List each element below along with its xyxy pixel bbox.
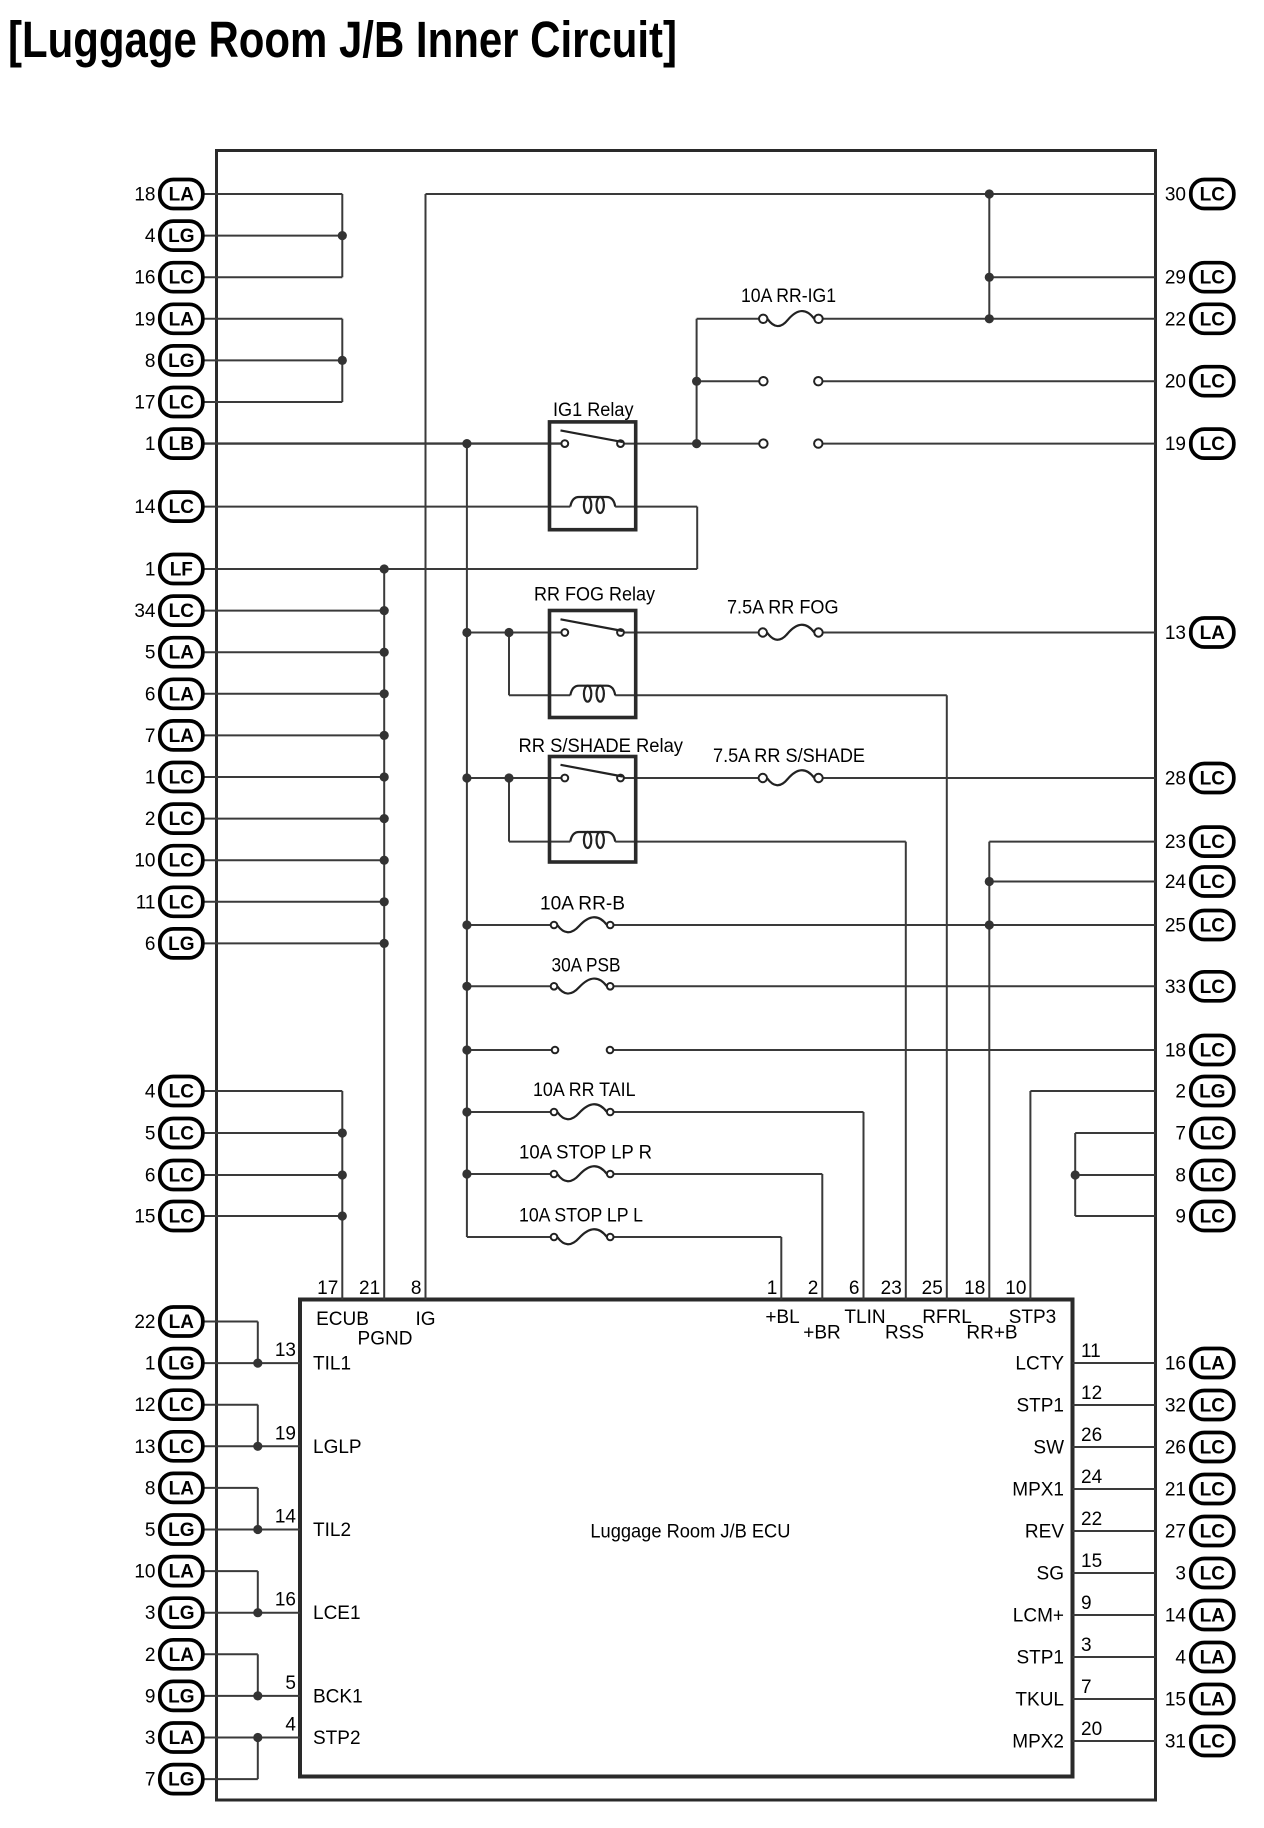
wire 1LB row to IG1 relay contact bbox=[200, 442, 561, 444]
junction 22LC row bbox=[985, 314, 994, 323]
svg-text:LC: LC bbox=[1200, 769, 1226, 790]
wire bus 4LC/5LC/6LC/15LC down to ECU pin 17 ECUB bbox=[341, 1091, 343, 1300]
wire ECU right pin row y=1657 bbox=[1073, 1656, 1156, 1658]
svg-text:8: 8 bbox=[1175, 1166, 1186, 1187]
svg-text:16: 16 bbox=[1165, 1354, 1186, 1375]
fuse 7.5A RR FOG bbox=[727, 598, 839, 640]
wire left pin row y=693.8 to PGND bus bbox=[200, 693, 384, 695]
pin 28 LC right bbox=[1165, 764, 1234, 793]
wire ECU right pin row y=1531 bbox=[1073, 1530, 1156, 1532]
wire left pin row y=943.4 to PGND bus bbox=[200, 942, 384, 944]
svg-text:LG: LG bbox=[168, 351, 194, 372]
pin 34 LC left bbox=[134, 596, 202, 625]
svg-text:LG: LG bbox=[168, 1354, 194, 1375]
svg-text:LC: LC bbox=[1200, 1166, 1226, 1187]
svg-text:5: 5 bbox=[285, 1673, 296, 1694]
svg-text:21: 21 bbox=[1165, 1480, 1186, 1501]
junction PGND bus y=860.2 bbox=[380, 856, 389, 865]
svg-text:LGLP: LGLP bbox=[313, 1437, 362, 1458]
svg-text:17: 17 bbox=[134, 393, 155, 414]
wire to pin 9 LC bbox=[1075, 1215, 1155, 1217]
svg-text:+BR: +BR bbox=[803, 1323, 841, 1344]
pin 6 LC left bbox=[145, 1161, 203, 1190]
svg-text:26: 26 bbox=[1165, 1438, 1186, 1459]
pin 16 LC left bbox=[134, 263, 202, 292]
wire bottom-left tie bracket 1 bbox=[257, 1322, 259, 1364]
wire fuse RR FOG to pin 13 LA bbox=[823, 632, 1156, 634]
svg-text:8: 8 bbox=[411, 1278, 422, 1299]
fuse 10A RR-IG1 bbox=[741, 286, 836, 326]
pin 23 LC right bbox=[1165, 827, 1234, 856]
wire bottom-left pin row y=1529.5 bbox=[200, 1529, 300, 1531]
svg-text:25: 25 bbox=[922, 1278, 943, 1299]
fuse 10A RR-B bbox=[540, 894, 625, 933]
wire to pin 7 LC bbox=[1075, 1132, 1155, 1134]
wire fuse RR S/SHADE to pin 28 LC bbox=[823, 777, 1156, 779]
svg-text:LC: LC bbox=[1200, 268, 1226, 289]
svg-text:1: 1 bbox=[767, 1278, 778, 1299]
svg-text:RSS: RSS bbox=[885, 1323, 924, 1344]
wire aux bus to fuse STOP LP L bbox=[467, 1236, 551, 1238]
svg-text:LC: LC bbox=[1200, 1732, 1226, 1753]
pin 33 LC right bbox=[1165, 972, 1234, 1001]
wire RR S/SHADE coil return bbox=[615, 841, 906, 843]
svg-text:7: 7 bbox=[145, 1770, 156, 1791]
svg-text:24: 24 bbox=[1165, 872, 1187, 893]
svg-text:4: 4 bbox=[1175, 1648, 1186, 1669]
svg-text:LG: LG bbox=[168, 1520, 194, 1541]
svg-text:[Luggage Room J/B Inner Circui: [Luggage Room J/B Inner Circuit] bbox=[8, 11, 677, 68]
wire connector to pin 20 LC bbox=[823, 380, 1156, 382]
svg-text:3: 3 bbox=[145, 1728, 156, 1749]
wire bottom-left pin row y=1612.7 bbox=[200, 1612, 300, 1614]
svg-text:LG: LG bbox=[168, 1770, 194, 1791]
outer J/B boundary box bbox=[217, 151, 1156, 1801]
svg-text:LA: LA bbox=[169, 309, 195, 330]
ECU right pin 22 REV bbox=[1025, 1509, 1102, 1543]
wire 4LG row bbox=[200, 235, 342, 237]
pin 15 LC left bbox=[134, 1202, 202, 1231]
wire to pin 29 LC bbox=[989, 276, 1155, 278]
pin 32 LC right bottom bbox=[1165, 1391, 1234, 1420]
svg-text:2: 2 bbox=[808, 1278, 819, 1299]
junction 20LC branch bbox=[692, 377, 701, 386]
wire tie bracket group 18LA/4LG/16LC bbox=[341, 194, 343, 277]
wire aux bus to fuse STOP LP R bbox=[467, 1173, 551, 1175]
svg-text:REV: REV bbox=[1025, 1522, 1064, 1543]
ECU top pin 1 +BL bbox=[765, 1278, 799, 1328]
svg-text:10: 10 bbox=[1005, 1278, 1026, 1299]
wire 16LC row bbox=[200, 276, 342, 278]
svg-text:26: 26 bbox=[1081, 1425, 1102, 1446]
wire ECU right pin row y=1447 bbox=[1073, 1446, 1156, 1448]
wire 18LA row to tie bracket bbox=[200, 193, 342, 195]
svg-text:LC: LC bbox=[169, 1082, 195, 1103]
wire ECU right pin row y=1699 bbox=[1073, 1698, 1156, 1700]
wire bottom-left tie bracket 3 bbox=[257, 1488, 259, 1530]
svg-text:SW: SW bbox=[1033, 1438, 1064, 1459]
svg-text:7: 7 bbox=[145, 726, 156, 747]
svg-text:LG: LG bbox=[168, 1686, 194, 1707]
ECU right pin 7 TKUL bbox=[1015, 1677, 1091, 1711]
svg-text:10A RR-B: 10A RR-B bbox=[540, 894, 625, 915]
wire ECU right pin row y=1573 bbox=[1073, 1572, 1156, 1574]
svg-text:LA: LA bbox=[169, 684, 195, 705]
svg-text:LG: LG bbox=[1199, 1082, 1225, 1103]
pin 12 LC left bottom bbox=[134, 1390, 202, 1419]
wire RR S/SHADE coil to ECU pin 23 RSS bbox=[905, 842, 907, 1300]
wire PGND bus down to ECU pin 21 bbox=[383, 569, 385, 1300]
svg-text:33: 33 bbox=[1165, 977, 1186, 998]
ECU left pin 5 BCK1 bbox=[285, 1673, 362, 1708]
svg-text:RR S/SHADE Relay: RR S/SHADE Relay bbox=[519, 736, 684, 757]
svg-text:LA: LA bbox=[1200, 1648, 1226, 1669]
svg-text:2: 2 bbox=[145, 809, 156, 830]
svg-text:TLIN: TLIN bbox=[844, 1307, 885, 1328]
wire ECU right pin row y=1363 bbox=[1073, 1362, 1156, 1364]
svg-text:LC: LC bbox=[169, 497, 195, 518]
pin 22 LA left bottom bbox=[134, 1307, 202, 1336]
pin 27 LC right bottom bbox=[1165, 1517, 1234, 1546]
svg-text:9: 9 bbox=[1081, 1593, 1092, 1614]
wire bottom-left pin row y=1363.1 bbox=[200, 1362, 300, 1364]
junction bottom-left tie 4 bbox=[253, 1608, 262, 1617]
junction aux bus RR S/SHADE row bbox=[462, 773, 471, 782]
wire bottom-left tie bracket 2 bbox=[257, 1405, 259, 1447]
svg-text:13: 13 bbox=[275, 1340, 296, 1361]
relay RR S/SHADE bbox=[519, 736, 684, 862]
junction 1LB / aux bus bbox=[462, 439, 471, 448]
svg-text:+BL: +BL bbox=[765, 1307, 799, 1328]
junction 1LF / PGND bus bbox=[380, 564, 389, 573]
wire left pin row y=901.8 to PGND bus bbox=[200, 901, 384, 903]
pin 19 LC right bbox=[1165, 429, 1234, 458]
junction 30LC row bbox=[985, 189, 994, 198]
wire ECU right pin row y=1741 bbox=[1073, 1740, 1156, 1742]
junction fuse feed / 1LB row bbox=[692, 439, 701, 448]
svg-text:LC: LC bbox=[1200, 1041, 1226, 1062]
wire IG1 coil return vertical bbox=[696, 507, 698, 569]
svg-text:LC: LC bbox=[1200, 309, 1226, 330]
wire 4LC row bbox=[200, 1090, 342, 1092]
wire bottom-left tie bracket 5 bbox=[257, 1654, 259, 1696]
wire connector to pin 18 LC bbox=[613, 1049, 1155, 1051]
pin 5 LC left bbox=[145, 1119, 203, 1148]
wire 6LC row bbox=[200, 1174, 342, 1176]
svg-text:LC: LC bbox=[1200, 1438, 1226, 1459]
wire RR FOG coil return bbox=[615, 694, 947, 696]
wire tie bracket pins 7/8/9 LC bbox=[1074, 1133, 1076, 1216]
pin 5 LG left bottom bbox=[145, 1515, 203, 1544]
ECU right pin 24 MPX1 bbox=[1012, 1467, 1102, 1501]
wire IG vertical down to ECU pin 8 bbox=[425, 194, 427, 1300]
svg-text:24: 24 bbox=[1081, 1467, 1103, 1488]
svg-text:LCM+: LCM+ bbox=[1013, 1606, 1064, 1627]
svg-text:1: 1 bbox=[145, 768, 156, 789]
ECU left pin 13 TIL1 bbox=[275, 1340, 351, 1375]
wire 17LC row bbox=[200, 401, 342, 403]
svg-text:LC: LC bbox=[1200, 832, 1226, 853]
wire RR FOG coil branch vertical bbox=[508, 633, 510, 696]
pin 29 LC right bbox=[1165, 263, 1234, 292]
pin 10 LC left bbox=[134, 846, 202, 875]
wire 19LA row bbox=[200, 318, 342, 320]
svg-text:3: 3 bbox=[1175, 1564, 1186, 1585]
pin 7 LA left bbox=[145, 721, 203, 750]
pin 2 LA left bottom bbox=[145, 1640, 203, 1669]
wire branch to RR S/SHADE coil bbox=[509, 841, 570, 843]
junction PGND bus y=943.4 bbox=[380, 939, 389, 948]
svg-text:20: 20 bbox=[1081, 1719, 1102, 1740]
svg-text:11: 11 bbox=[1081, 1341, 1101, 1362]
svg-text:32: 32 bbox=[1165, 1396, 1186, 1417]
svg-text:14: 14 bbox=[1165, 1606, 1187, 1627]
svg-text:1: 1 bbox=[145, 434, 156, 455]
svg-text:LC: LC bbox=[169, 851, 195, 872]
pin 13 LC left bottom bbox=[134, 1432, 202, 1461]
wire IG1 coil return bbox=[615, 506, 697, 508]
svg-text:4: 4 bbox=[145, 226, 156, 247]
svg-text:5: 5 bbox=[145, 643, 156, 664]
svg-text:Luggage Room J/B ECU: Luggage Room J/B ECU bbox=[590, 1522, 790, 1543]
svg-text:LA: LA bbox=[1200, 1690, 1226, 1711]
svg-text:LC: LC bbox=[169, 268, 195, 289]
wire fuse RR-IG1 feed vertical bbox=[696, 319, 698, 444]
svg-text:LC: LC bbox=[1200, 1124, 1226, 1145]
junction RR S/SHADE coil branch bbox=[504, 773, 513, 782]
svg-text:LA: LA bbox=[169, 1645, 195, 1666]
svg-text:LA: LA bbox=[169, 726, 195, 747]
wire RR TAIL to ECU pin 6 TLIN bbox=[863, 1112, 865, 1300]
svg-text:LC: LC bbox=[169, 1207, 195, 1228]
svg-text:8: 8 bbox=[145, 1478, 156, 1499]
junction bottom-left tie 3 bbox=[253, 1525, 262, 1534]
junction PGND bus y=652.2 bbox=[380, 648, 389, 657]
svg-text:LG: LG bbox=[168, 934, 194, 955]
pin 25 LC right bbox=[1165, 911, 1234, 940]
pin 1 LB left bbox=[145, 429, 203, 458]
svg-text:LA: LA bbox=[169, 185, 195, 206]
pin 19 LA left bbox=[134, 304, 202, 333]
wire ECU right pin row y=1615 bbox=[1073, 1614, 1156, 1616]
svg-text:LF: LF bbox=[170, 560, 193, 581]
svg-text:LC: LC bbox=[1200, 1207, 1226, 1228]
ECU top pin 17 ECUB bbox=[316, 1278, 369, 1330]
fuse 10A STOP LP R bbox=[519, 1143, 652, 1182]
wire fuse RR-IG1 left lead bbox=[697, 318, 759, 320]
junction bottom-left tie 1 bbox=[253, 1359, 262, 1368]
junction aux bus PSB row bbox=[462, 982, 471, 991]
svg-text:15: 15 bbox=[1081, 1551, 1102, 1572]
svg-text:SG: SG bbox=[1037, 1564, 1064, 1585]
svg-text:10A STOP LP L: 10A STOP LP L bbox=[519, 1206, 643, 1227]
ECU top pin 23 RSS bbox=[881, 1278, 924, 1344]
junction PGND bus y=901.8 bbox=[380, 897, 389, 906]
svg-text:16: 16 bbox=[275, 1590, 296, 1611]
pin 22 LC right bbox=[1165, 304, 1234, 333]
junction bottom-left tie 6 (3LA row) bbox=[253, 1733, 262, 1742]
svg-text:6: 6 bbox=[145, 684, 156, 705]
wire left pin row y=610.6 to PGND bus bbox=[200, 610, 384, 612]
wire connector to pin 19 LC bbox=[823, 443, 1156, 445]
pin 31 LC right bottom bbox=[1165, 1727, 1234, 1756]
pin 9 LC right bbox=[1175, 1202, 1233, 1231]
pin 1 LF left bbox=[145, 555, 203, 584]
wire aux bus to fuse PSB bbox=[467, 985, 551, 987]
svg-text:3: 3 bbox=[145, 1603, 156, 1624]
pin 7 LG left bottom bbox=[145, 1765, 203, 1794]
junction 24LC row bbox=[985, 877, 994, 886]
pin 1 LG left bottom bbox=[145, 1349, 203, 1378]
wire ECU right pin row y=1405 bbox=[1073, 1404, 1156, 1406]
svg-text:BCK1: BCK1 bbox=[313, 1686, 363, 1707]
svg-text:4: 4 bbox=[285, 1715, 296, 1736]
svg-text:4: 4 bbox=[145, 1082, 156, 1103]
wire fuse STOP LP L output bbox=[614, 1236, 782, 1238]
wire left pin row y=818.6 to PGND bus bbox=[200, 818, 384, 820]
fuse 10A STOP LP L bbox=[519, 1206, 643, 1245]
svg-text:11: 11 bbox=[136, 892, 156, 913]
ECU top pin 10 STP3 bbox=[1005, 1278, 1056, 1328]
wire aux bus to RR S/SHADE relay contact bbox=[467, 777, 562, 779]
svg-text:15: 15 bbox=[134, 1207, 155, 1228]
junction 8LG tie bbox=[338, 356, 347, 365]
wire aux +B bus vertical bbox=[466, 444, 468, 1237]
connector contacts 20 LC row bbox=[759, 377, 822, 385]
pin 6 LG left bbox=[145, 929, 203, 958]
wire bottom-left tie bracket 6 bbox=[257, 1738, 259, 1780]
wire STOP LP L to ECU pin 1 +BL bbox=[780, 1237, 782, 1300]
pin 30 LC right bbox=[1165, 180, 1234, 209]
relay IG1 bbox=[550, 400, 636, 530]
wire STOP LP R to ECU pin 2 +BR bbox=[821, 1174, 823, 1300]
svg-text:LA: LA bbox=[169, 1728, 195, 1749]
svg-text:LC: LC bbox=[169, 1395, 195, 1416]
pin 8 LA left bottom bbox=[145, 1473, 203, 1502]
svg-text:22: 22 bbox=[1165, 309, 1186, 330]
svg-text:15: 15 bbox=[1165, 1690, 1186, 1711]
svg-text:9: 9 bbox=[145, 1686, 156, 1707]
connector contacts 19 LC row bbox=[759, 439, 822, 447]
svg-text:LC: LC bbox=[169, 601, 195, 622]
ECU right pin 12 STP1 bbox=[1016, 1383, 1102, 1417]
ECU right pin 11 LCTY bbox=[1015, 1341, 1100, 1375]
wire RR FOG coil to ECU pin 25 RFRL bbox=[946, 695, 948, 1299]
svg-text:10: 10 bbox=[134, 1562, 155, 1583]
svg-text:28: 28 bbox=[1165, 769, 1186, 790]
svg-text:STP1: STP1 bbox=[1016, 1396, 1064, 1417]
wire bottom-left pin row y=1571.1 bbox=[200, 1570, 258, 1572]
fuse 30A PSB bbox=[551, 956, 621, 994]
svg-text:6: 6 bbox=[849, 1278, 860, 1299]
svg-text:6: 6 bbox=[145, 1166, 156, 1187]
pin 21 LC right bottom bbox=[1165, 1475, 1234, 1504]
svg-text:LCE1: LCE1 bbox=[313, 1603, 361, 1624]
pin 3 LA left bottom bbox=[145, 1723, 203, 1752]
wire left pin row y=735.4 to PGND bus bbox=[200, 734, 384, 736]
svg-text:LC: LC bbox=[169, 892, 195, 913]
svg-text:8: 8 bbox=[145, 351, 156, 372]
svg-text:23: 23 bbox=[881, 1278, 902, 1299]
connector contacts 18 LC row bbox=[552, 1047, 614, 1054]
pin 10 LA left bottom bbox=[134, 1557, 202, 1586]
wire IG net top row to pin 30 LC bbox=[426, 193, 1156, 195]
wire aux bus to fuse RR-B bbox=[467, 924, 551, 926]
pin 2 LG right bbox=[1175, 1077, 1233, 1106]
pin 9 LG left bottom bbox=[145, 1681, 203, 1710]
ECU right pin 3 STP1 bbox=[1016, 1635, 1091, 1669]
svg-text:16: 16 bbox=[134, 268, 155, 289]
relay RR FOG bbox=[534, 585, 655, 718]
svg-text:23: 23 bbox=[1165, 832, 1186, 853]
svg-text:5: 5 bbox=[145, 1520, 156, 1541]
junction 29LC row bbox=[985, 273, 994, 282]
ECU top pin 21 PGND bbox=[358, 1278, 413, 1350]
svg-text:LC: LC bbox=[1200, 372, 1226, 393]
svg-text:17: 17 bbox=[317, 1278, 338, 1299]
wire left pin row y=652.2 to PGND bus bbox=[200, 651, 384, 653]
ECU top pin 2 +BR bbox=[803, 1278, 841, 1344]
wire pin 2LG to ECU pin 10 STP3 bbox=[1029, 1091, 1031, 1300]
svg-text:12: 12 bbox=[134, 1395, 155, 1416]
svg-text:LG: LG bbox=[168, 226, 194, 247]
ECU left pin 4 STP2 bbox=[285, 1715, 360, 1750]
svg-text:2: 2 bbox=[1175, 1082, 1186, 1103]
svg-text:MPX2: MPX2 bbox=[1012, 1732, 1064, 1753]
junction 6LC bbox=[338, 1170, 347, 1179]
wire branch to RR FOG coil bbox=[509, 694, 570, 696]
svg-text:20: 20 bbox=[1165, 372, 1186, 393]
wire 8LG row bbox=[200, 359, 342, 361]
svg-text:25: 25 bbox=[1165, 916, 1186, 937]
svg-text:27: 27 bbox=[1165, 1522, 1186, 1543]
wire to pin 24 LC bbox=[989, 881, 1155, 883]
wire left pin row y=777 to PGND bus bbox=[200, 776, 384, 778]
svg-text:LC: LC bbox=[1200, 1396, 1226, 1417]
svg-text:LC: LC bbox=[1200, 872, 1226, 893]
svg-text:29: 29 bbox=[1165, 268, 1186, 289]
svg-text:22: 22 bbox=[1081, 1509, 1102, 1530]
svg-text:LC: LC bbox=[169, 1437, 195, 1458]
svg-text:13: 13 bbox=[134, 1437, 155, 1458]
pin 3 LC right bottom bbox=[1175, 1559, 1233, 1588]
svg-text:LC: LC bbox=[169, 1124, 195, 1145]
wire 14LC row to IG1 relay coil bbox=[200, 506, 570, 508]
wire RR+B vertical to ECU pin 18 bbox=[988, 842, 990, 1300]
junction aux bus 18LC row bbox=[462, 1045, 471, 1054]
wire left pin row y=860.2 to PGND bus bbox=[200, 859, 384, 861]
svg-text:30A PSB: 30A PSB bbox=[552, 956, 621, 977]
ECU top pin 25 RFRL bbox=[922, 1278, 972, 1328]
pin 18 LA left bbox=[134, 180, 202, 209]
svg-text:TIL1: TIL1 bbox=[313, 1354, 351, 1375]
svg-text:7: 7 bbox=[1175, 1124, 1186, 1145]
junction bottom-left tie 5 bbox=[253, 1691, 262, 1700]
svg-text:LA: LA bbox=[169, 1478, 195, 1499]
svg-text:LC: LC bbox=[1200, 1522, 1226, 1543]
svg-text:14: 14 bbox=[275, 1507, 297, 1528]
svg-text:IG1 Relay: IG1 Relay bbox=[553, 400, 634, 421]
junction RR+B / RR-B row bbox=[985, 920, 994, 929]
junction 15LC bbox=[338, 1211, 347, 1220]
svg-text:19: 19 bbox=[1165, 434, 1186, 455]
ECU top pin 18 RR+B bbox=[964, 1278, 1017, 1344]
pin 6 LA left bbox=[145, 679, 203, 708]
pin 13 LA right bbox=[1165, 618, 1234, 647]
wire fuse RR-IG1 to pin 22 LC bbox=[823, 318, 1156, 320]
pin 5 LA left bbox=[145, 638, 203, 667]
svg-text:TKUL: TKUL bbox=[1015, 1690, 1064, 1711]
